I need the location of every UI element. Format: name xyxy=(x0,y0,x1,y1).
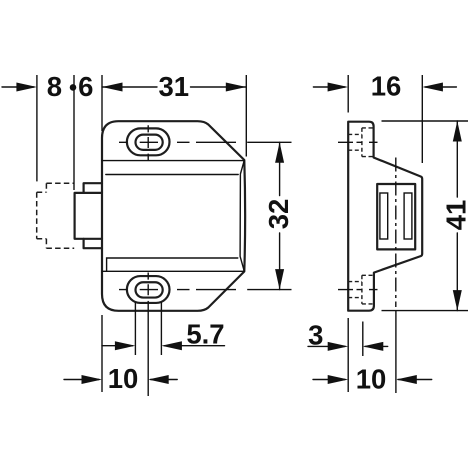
svg-text:10: 10 xyxy=(356,364,387,395)
plunger solid stem xyxy=(75,193,102,239)
extension line dim3 xyxy=(362,322,364,357)
top screw hole slot xyxy=(136,135,163,150)
front body inset line lower xyxy=(107,258,238,271)
svg-text:10: 10 xyxy=(108,363,139,394)
extension line dim8 left xyxy=(36,75,38,181)
dim 3 left arrow xyxy=(308,345,345,347)
svg-text:32: 32 xyxy=(263,199,294,230)
front body inset line upper xyxy=(106,174,238,176)
dim 41 top extension xyxy=(382,120,469,122)
side view outline xyxy=(348,122,422,311)
svg-text:5.7: 5.7 xyxy=(186,319,224,350)
side bottom screw pocket dashed xyxy=(362,275,374,304)
dim 8 arrowhead xyxy=(16,83,37,92)
bottom hole centerline vertical xyxy=(147,273,149,296)
dim 41 line xyxy=(456,121,458,311)
plunger dashed bottom step xyxy=(37,239,74,248)
plunger solid bottom lip xyxy=(84,239,102,248)
side magnet pole bar right xyxy=(404,193,412,239)
dim 31 line xyxy=(102,86,246,88)
dim 16 right arrow xyxy=(425,86,456,88)
side vertical centerline xyxy=(395,158,397,308)
dim 5.7 right line xyxy=(164,345,224,347)
svg-text:8: 8 xyxy=(47,71,62,102)
dim 32 down arrowhead xyxy=(275,269,284,290)
extension line body left edge xyxy=(101,75,103,131)
side magnet face outer xyxy=(377,184,415,249)
svg-text:6: 6 xyxy=(78,71,93,102)
side top hole centerline xyxy=(338,141,378,143)
extension line slot right xyxy=(160,302,162,355)
side bottom screw bore dashed xyxy=(348,282,362,298)
side magnet pole bar left xyxy=(380,193,388,239)
dim side 10 left arrow xyxy=(313,379,345,381)
side top screw bore dashed xyxy=(348,134,362,150)
bottom screw hole outer xyxy=(127,276,170,303)
extension line front body left bottom xyxy=(101,315,103,392)
dim 3 right arrow xyxy=(365,345,388,347)
front view body outline xyxy=(102,121,245,311)
svg-text:3: 3 xyxy=(308,319,323,350)
extension line hole center xyxy=(147,301,149,396)
dim 31 left arrowhead xyxy=(102,83,123,92)
extension line dim8/6 middle xyxy=(73,75,75,190)
dim 41 down arrowhead xyxy=(453,290,462,311)
top hole centerline vertical xyxy=(147,125,149,160)
dim front 10 right arrow xyxy=(151,379,178,381)
dim 41 bottom extension xyxy=(382,310,469,312)
svg-text:41: 41 xyxy=(441,200,470,231)
dim 32 line xyxy=(279,142,281,289)
dim 41 up arrowhead xyxy=(453,121,462,142)
dim 32 top extension xyxy=(247,141,291,143)
plunger dashed top step xyxy=(37,183,74,192)
dim 8 arrow line xyxy=(2,86,34,88)
side bottom hole centerline xyxy=(338,289,378,291)
extension line slot left xyxy=(134,302,136,355)
dim front 10 left arrow xyxy=(64,379,99,381)
svg-text:16: 16 xyxy=(371,71,402,102)
dim side 10 right arrow xyxy=(398,379,432,381)
side top screw pocket dashed xyxy=(362,128,374,157)
plunger dashed extended face xyxy=(36,192,38,239)
dim 32 up arrowhead xyxy=(275,142,284,163)
extension line body right edge xyxy=(245,75,247,157)
dim chain dot xyxy=(70,84,77,91)
dim 5.7 left line xyxy=(102,345,133,347)
plunger solid top lip xyxy=(84,183,102,193)
front body interior line lower xyxy=(102,270,244,272)
dim 31 right arrowhead xyxy=(226,83,247,92)
extension line side right edge xyxy=(421,75,423,163)
front body right face inner line xyxy=(240,160,244,271)
top hole centerline horizontal xyxy=(119,141,236,143)
bottom screw hole slot xyxy=(136,282,163,297)
front body interior line upper xyxy=(102,160,244,162)
svg-text:31: 31 xyxy=(159,71,190,102)
top screw hole outer xyxy=(127,128,170,155)
dim 16 left arrow xyxy=(313,86,345,88)
dim 32 bottom extension xyxy=(247,289,291,291)
extension line side left bottom xyxy=(347,318,349,392)
bottom hole centerline horizontal xyxy=(119,289,236,291)
extension line side left edge xyxy=(347,75,349,113)
